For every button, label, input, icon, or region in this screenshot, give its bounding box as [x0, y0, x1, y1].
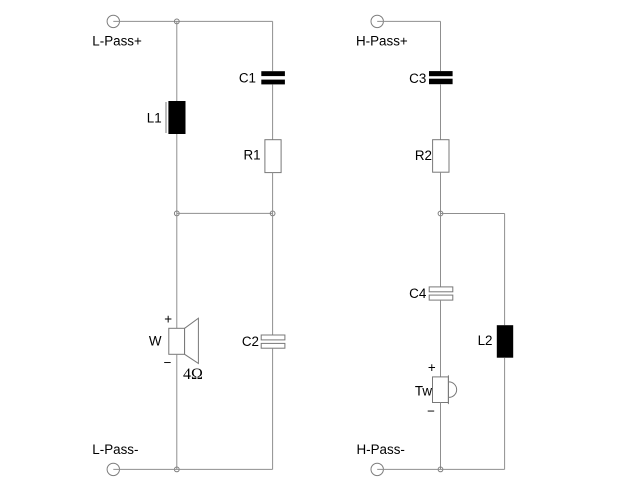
capacitor C3 [429, 71, 453, 84]
wire mid horizontal left circuit [177, 212, 273, 214]
resistor R2 [433, 140, 449, 173]
wire C4 to tweeter [440, 300, 442, 377]
speaker W (woofer) [169, 318, 199, 363]
svg-text:R1: R1 [243, 148, 260, 163]
svg-text:+: + [164, 311, 172, 326]
capacitor C4 [429, 287, 453, 300]
inductor L1 [166, 101, 186, 134]
wire L2 to bottom corner [504, 358, 506, 470]
wire C2 to bottom [272, 348, 274, 469]
svg-text:C2: C2 [242, 334, 259, 349]
wire mid junction to C4 [440, 214, 442, 287]
svg-text:L1: L1 [147, 110, 162, 125]
svg-text:H-Pass+: H-Pass+ [356, 34, 408, 49]
wire mid horizontal right circuit [441, 213, 505, 215]
capacitor C2 [261, 335, 285, 348]
svg-text:W: W [149, 333, 162, 348]
wire top to C1 [272, 21, 274, 71]
svg-text:L-Pass+: L-Pass+ [92, 33, 142, 48]
svg-text:C1: C1 [239, 71, 256, 86]
node junction mid-right circuit [438, 211, 443, 216]
node junction mid-left [174, 211, 179, 216]
svg-text:C3: C3 [409, 71, 426, 86]
svg-text:−: − [164, 355, 172, 370]
node junction mid-right of left circuit [270, 211, 275, 216]
resistor R1 [265, 140, 281, 173]
svg-text:Tw: Tw [415, 383, 432, 398]
wire woofer to bottom junction [176, 354, 178, 469]
svg-text:+: + [428, 360, 436, 375]
capacitor C1 [261, 71, 285, 84]
wire top-right horizontal [377, 20, 440, 22]
svg-text:4Ω: 4Ω [183, 366, 203, 383]
terminal L-Pass+ [107, 15, 119, 27]
terminal L-Pass- [107, 463, 119, 475]
wire C1 to R1 [272, 84, 274, 139]
terminal H-Pass+ [371, 15, 383, 27]
svg-text:H-Pass-: H-Pass- [357, 442, 405, 457]
wire L1 to mid junction [176, 134, 178, 213]
wire R2 to mid junction [440, 172, 442, 213]
terminal H-Pass- [371, 463, 383, 475]
node junction bottom-right circuit [438, 467, 443, 472]
wire R1 to mid junction [272, 173, 274, 214]
wire bottom-right horizontal [377, 468, 504, 470]
wire mid junction to C2 [272, 213, 274, 335]
inductor L2 [497, 325, 513, 358]
wire C3 to R2 [440, 84, 442, 140]
node junction top-left [174, 19, 179, 24]
wire top-left horizontal [113, 20, 272, 22]
wire down to L2 [504, 214, 506, 326]
wire bottom-left horizontal [113, 468, 272, 470]
node junction bottom-left [174, 467, 179, 472]
wire mid junction to woofer [176, 213, 178, 328]
svg-text:R2: R2 [415, 148, 432, 163]
wire tweeter to bottom junction [440, 403, 442, 470]
svg-text:L2: L2 [478, 333, 493, 348]
tweeter Tw [433, 375, 457, 404]
svg-text:−: − [427, 403, 435, 418]
svg-text:C4: C4 [409, 286, 427, 301]
wire L1 branch upper [176, 21, 178, 101]
wire top to C3 [440, 21, 442, 71]
svg-text:L-Pass-: L-Pass- [92, 442, 138, 457]
